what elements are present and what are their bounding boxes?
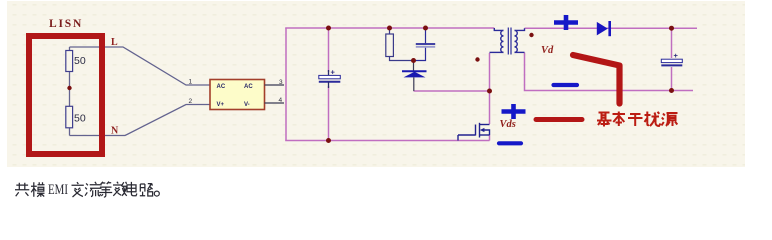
red callout line (536, 117, 582, 122)
resistor R-lisn-1 (50) (66, 51, 73, 72)
primary polarity dot (475, 57, 479, 61)
primary lead top (494, 28, 503, 30)
wire cap C1 top lead (328, 28, 330, 72)
svg-text:1: 1 (189, 79, 193, 86)
svg-text:V+: V+ (217, 102, 225, 108)
Vds plus symbol (502, 104, 526, 119)
node top at snubber C (423, 26, 428, 31)
node snubber RCD junction (411, 58, 416, 63)
Vd minus bar (554, 83, 578, 87)
本 (613, 112, 626, 127)
red pointer from Vd (573, 55, 620, 104)
magenta wires (285, 28, 697, 141)
svg-text:L: L (111, 37, 118, 48)
wire secondary top rail (525, 27, 698, 29)
svg-text:Vd: Vd (541, 45, 554, 56)
bridge rectifier U1 box (210, 80, 265, 110)
源 (662, 113, 678, 126)
电 (127, 182, 137, 196)
svg-text:N: N (111, 126, 119, 137)
效 (113, 182, 127, 196)
secondary lead top (515, 28, 525, 30)
node out cap bottom (669, 88, 674, 93)
secondary lead bottom (515, 51, 525, 53)
wire cap C1 bottom lead (328, 86, 330, 141)
snubber resistor R2 (386, 28, 414, 61)
svg-text:V-: V- (244, 102, 250, 108)
模 (31, 182, 45, 197)
resistor R-lisn-2 (50) (66, 106, 73, 128)
snubber diode D1 (413, 61, 415, 72)
wire top rail left (285, 27, 494, 29)
MOSFET Q1 (458, 123, 490, 141)
svg-text:LISN: LISN (49, 18, 83, 30)
基 (597, 112, 612, 127)
流 (85, 182, 102, 197)
bridge pin3 wire (265, 84, 285, 86)
Vds minus bar (499, 141, 521, 145)
wire snubber to drain (414, 90, 490, 92)
wire N horizontal+diagonal from LISN to bridge pin2 (70, 105, 211, 136)
干 (628, 114, 643, 126)
svg-text:2: 2 (189, 98, 193, 105)
secondary polarity dot (529, 33, 533, 37)
svg-text:AC: AC (244, 84, 253, 90)
svg-text:+: + (331, 68, 336, 77)
snubber capacitor C2 (414, 28, 436, 61)
wire L horizontal+diagonal from LISN to bridge pin1 (70, 47, 211, 136)
transformer T1 (490, 28, 525, 55)
svg-text:50: 50 (74, 55, 86, 67)
node between LISN resistors (67, 86, 71, 90)
output capacitor C3 electrolytic (661, 59, 682, 62)
路 (140, 183, 153, 196)
扰 (645, 112, 661, 127)
svg-text:AC: AC (217, 84, 226, 90)
svg-text:+: + (674, 51, 679, 60)
LISN box (29, 36, 102, 154)
共 (15, 183, 29, 197)
svg-text:50: 50 (74, 113, 86, 125)
node drain-snubber junction (487, 89, 492, 94)
wire secondary bottom vertical (525, 53, 694, 91)
wire out cap top lead (671, 28, 673, 58)
bulk capacitor C1 electrolytic (328, 70, 330, 76)
wire bottom rail (285, 140, 489, 142)
node C1 bottom rail (326, 138, 331, 143)
svg-text:EMI: EMI (48, 182, 68, 198)
等 (99, 182, 112, 198)
schematic background (7, 1, 745, 167)
label 基本干扰源 (hand drawn) (597, 112, 678, 127)
node bus top at C1 (326, 26, 331, 31)
secondary winding (515, 30, 518, 52)
primary lead bottom (490, 51, 504, 53)
交 (72, 182, 84, 197)
。 (154, 191, 159, 196)
caption 共模 EMI 交流等效电路。 (hand drawn CJK + latin) (15, 182, 159, 198)
node out cap top (669, 26, 674, 31)
wire source down (489, 135, 491, 141)
primary winding (501, 30, 504, 52)
bridge pin4 wire (265, 102, 285, 104)
Vd plus symbol (554, 15, 578, 30)
core (507, 28, 509, 55)
wire LISN internal vertical (69, 47, 71, 136)
wire DC bus left vertical (285, 28, 287, 141)
wire primary bottom to drain (489, 53, 491, 124)
svg-text:Vds: Vds (500, 119, 516, 130)
wire out cap bottom lead (671, 67, 673, 91)
node top at snubber R (387, 26, 392, 31)
output diode D2 (597, 22, 608, 36)
